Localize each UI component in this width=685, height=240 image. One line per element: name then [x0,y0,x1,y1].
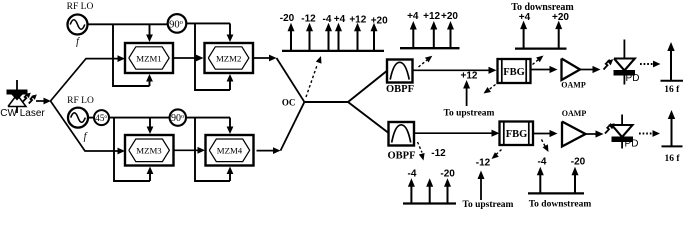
light arrow into PD (top) [604,59,614,69]
light arrow into PD (bottom) [605,123,615,133]
phase shifter 45 [94,110,109,125]
svg-text:+12: +12 [349,15,366,26]
wire: OBPF to FBG (top) [413,69,491,71]
svg-text:-12: -12 [476,158,491,169]
arrow up from To upstream (bottom) [480,177,482,200]
spectrum: lower band -4 -20 [403,169,456,204]
dashed arrow: OBPF output spectrum pointer (top) [419,56,433,67]
grating FBG (top) [498,59,531,83]
svg-text:-20: -20 [440,169,455,180]
svg-text:FBG: FBG [503,67,525,78]
CW laser diode symbol [7,80,28,113]
svg-text:-20: -20 [571,157,586,168]
svg-text:To downstream: To downstream [529,200,592,210]
laser output arrow [36,100,45,102]
svg-text:OAMP: OAMP [562,109,587,118]
wire: RF LO to 90 shifter (top) [88,23,169,25]
dashed arrow: FBG reflection pointer down-left (bottom) [492,150,502,160]
svg-text:OAMP: OAMP [561,81,586,90]
spectrum: upper band +4 +12 +20 [400,11,460,48]
RF LO oscillator (top) [67,2,94,48]
wire: OAMP to PD (top) [580,69,595,71]
laser emitted-light arrows [23,93,37,104]
svg-text:16 f: 16 f [664,85,680,95]
wire: MZM3 bottom electrode loop [114,118,153,181]
filter OBPF (top) [386,60,414,96]
wire: laser to MZM3 input [51,101,126,154]
svg-text:+4: +4 [334,14,346,25]
svg-text:MZM2: MZM2 [216,53,241,63]
dotted arrow: PD to output spectrum (top) [640,61,661,68]
arrow up from To upstream (top) [466,86,468,106]
filter OBPF (bottom) [388,122,416,162]
svg-text:MZM1: MZM1 [136,53,161,63]
svg-text:+20: +20 [552,12,569,23]
phase shifter 90 (bottom) [170,109,186,125]
spectrum: detected 16f (bottom) [662,110,683,164]
wire: FBG to OAMP (top) [531,69,552,71]
photodiode PD (top) [614,40,640,85]
svg-text:PD: PD [625,139,639,150]
svg-text:-4: -4 [323,14,332,25]
wire: OAMP to PD (bottom) [586,133,598,135]
RF LO oscillator (bottom) [67,96,94,143]
wire: 90 shifter to MZM4 drop (bottom) [186,117,230,119]
wire: MZM4 output to coupler [257,102,305,154]
wire: RF drop into MZM4 top electrode [229,118,231,129]
spectrum: downstream band -4 -20 (bottom) [528,157,586,194]
svg-text:CW Laser: CW Laser [0,108,45,119]
modulator MZM1 [125,43,173,73]
phase shifter 90 (top) [168,14,187,33]
wire: 45 shifter to 90 shifter (bottom) [109,117,170,119]
wire: RF drop into MZM2 top electrode [229,23,231,36]
svg-text:OC: OC [282,97,296,107]
spectrum: combined comb -20 -12 -4 +4 +12 +20 [280,13,388,51]
svg-text:-4: -4 [538,157,547,168]
wire: MZM2 output to coupler [253,55,304,102]
wire: MZM2 bottom electrode loop [195,23,233,90]
modulator MZM4 [206,135,254,166]
svg-text:+4: +4 [519,12,531,23]
dashed arrow: FBG reflection pointer down-left (top) [484,85,496,94]
svg-text:RF LO: RF LO [67,96,94,106]
wire: MZM4 bottom electrode loop [195,118,233,181]
svg-text:OBPF: OBPF [388,151,416,162]
amplifier OAMP (bottom) [562,109,587,147]
spectrum: downstream band +4 +20 (top) [515,12,569,49]
modulator MZM2 [205,43,254,73]
wire: MZM1 to MZM2 [173,57,198,59]
wire: laser to MZM1 input [51,55,126,101]
spectrum: detected 16f (top) [661,42,684,95]
wire: MZM3 to MZM4 [174,149,200,151]
dashed arrow: FBG pass pointer up-right (top) [533,56,544,65]
svg-text:+4: +4 [407,11,419,22]
dashed arrow: OBPF rejected pointer down (bottom) [418,142,425,161]
svg-text:MZM4: MZM4 [217,146,243,156]
svg-text:RF LO: RF LO [67,2,94,12]
amplifier OAMP (top) [561,59,586,90]
wire: 90 shifter to MZM2 drop (top) [186,22,230,24]
svg-text:+12: +12 [423,11,440,22]
svg-text:To upstream: To upstream [463,200,514,210]
svg-text:-12: -12 [301,13,316,24]
wire: MZM1 bottom electrode loop [113,24,153,86]
wire: FBG to OAMP (bottom) [533,133,552,135]
photodiode PD (bottom) [612,115,639,150]
svg-text:+20: +20 [371,15,388,26]
dashed arrow: pointer to -4 (bottom) [542,140,549,153]
dashed arrow: coupler to combined spectrum [306,56,321,97]
svg-text:-20: -20 [280,13,295,24]
svg-text:-4: -4 [408,169,417,180]
svg-text:To upstream: To upstream [444,108,495,118]
svg-text:MZM3: MZM3 [136,146,162,156]
svg-text:16 f: 16 f [664,154,680,164]
svg-text:FBG: FBG [506,129,528,140]
svg-text:OBPF: OBPF [386,84,414,95]
svg-text:PD: PD [626,73,640,84]
svg-text:+20: +20 [441,11,458,22]
wire: trunk split to OBPF bottom [348,102,389,133]
wire: trunk split to OBPF top [348,70,388,102]
wire: RF drop into MZM3 top electrode [149,118,151,129]
wire: RF drop into MZM1 top electrode [149,24,151,36]
wire: OBPF to FBG (bottom) [414,132,494,134]
svg-text:+12: +12 [461,71,478,82]
wire: coupler trunk [304,101,348,103]
svg-text:-12: -12 [431,148,446,159]
wire: oscillator to 45 shifter [88,117,95,119]
grating FBG (bottom) [500,122,534,146]
modulator MZM3 [125,135,174,166]
dotted arrow: PD to output spectrum (bottom) [639,130,660,137]
